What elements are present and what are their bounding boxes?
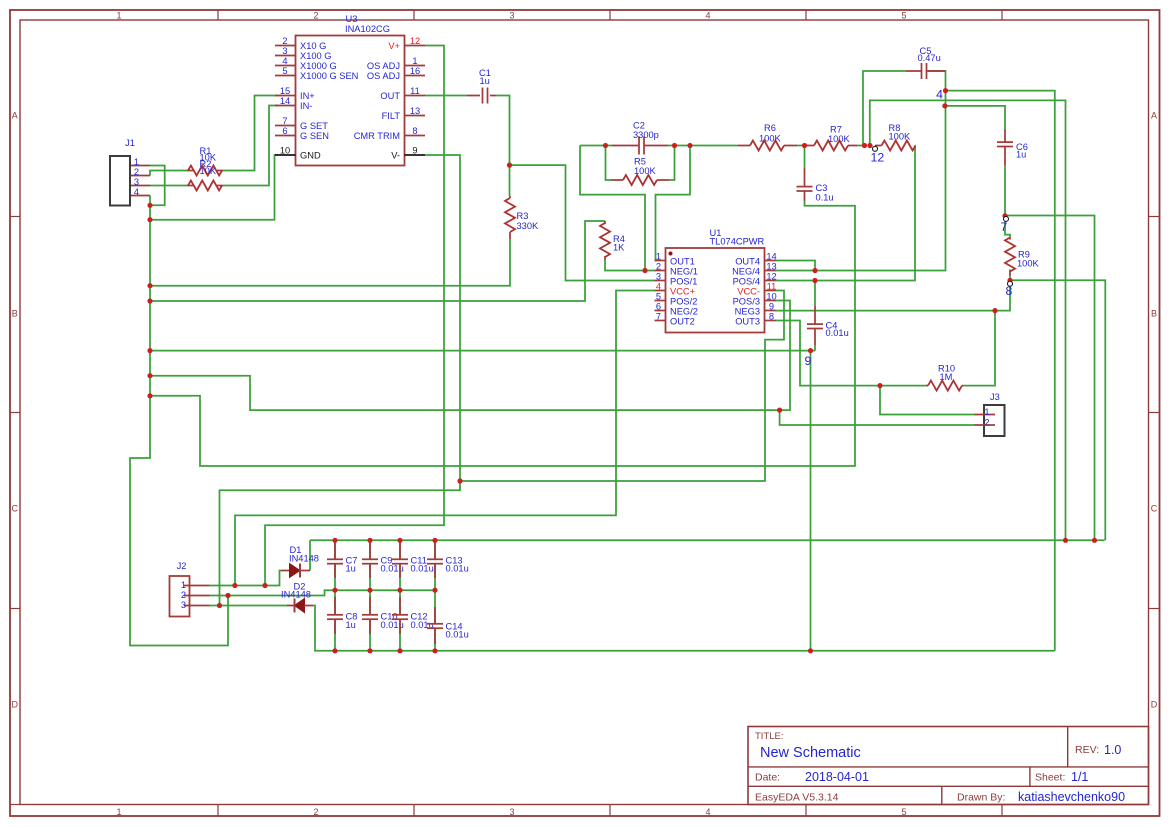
svg-text:VCC-: VCC- [737,287,760,297]
svg-text:VCC+: VCC+ [670,287,695,297]
svg-text:Drawn By:: Drawn By: [957,792,1005,804]
svg-text:3: 3 [509,807,514,817]
capacitor C11 0.01u [392,542,434,578]
svg-text:4: 4 [705,807,710,817]
svg-text:3300p: 3300p [633,130,659,140]
svg-text:5: 5 [282,66,287,76]
resistor R2 10K [187,159,223,190]
wire node to U1 POS/1 pin 3 [510,165,656,280]
wire U1 NEG/4 pin 13 row to C5 right [775,71,946,271]
svg-text:R3: R3 [517,211,529,221]
wire VCC+ net from U1 pin 4 to J2 pin 1 [235,291,655,586]
svg-text:OUT3: OUT3 [735,317,760,327]
wire D2 anode to bottom rail [313,606,1055,651]
svg-text:V+: V+ [388,41,400,51]
wire ground spur to U1 POS/3 pin 10 [150,301,790,411]
svg-text:C: C [1151,503,1158,513]
wire net 12 R7 R8 node up and over [870,100,1066,540]
svg-text:1u: 1u [480,76,490,86]
svg-text:13: 13 [766,262,776,272]
svg-text:16: 16 [410,66,420,76]
op-amp IC U1 TL074CPWR [655,228,777,333]
wire C3 top [804,146,806,169]
svg-text:IN+: IN+ [300,91,315,101]
svg-text:IN-: IN- [300,101,312,111]
wire J1 pin3 to R2 left [150,185,187,187]
wire net 7 C6 bottom to rail riser [1005,165,1095,540]
svg-text:NEG/4: NEG/4 [732,267,760,277]
wire R1 right to U3 IN+ pin 15 [223,96,278,171]
svg-text:4: 4 [134,187,139,197]
svg-text:0.01u: 0.01u [411,564,434,574]
svg-text:100K: 100K [889,132,912,142]
wire branch to J3 pin 2 [780,410,975,425]
wire ground spur to R4 top [150,221,605,301]
svg-text:OS ADJ: OS ADJ [367,61,400,71]
svg-text:IN4148: IN4148 [289,554,319,564]
capacitor C6 1u [997,129,1028,165]
svg-text:5: 5 [901,10,906,20]
net label 7 [1001,216,1009,234]
svg-text:2018-04-01: 2018-04-01 [805,770,869,784]
capacitor C14 0.01u [427,607,469,644]
svg-text:3: 3 [181,600,186,610]
svg-text:5: 5 [656,292,661,302]
svg-text:3: 3 [509,10,514,20]
capacitor C3 0.1u [797,168,834,203]
wire net 9 ground to C4 bottom [150,350,815,352]
wire J1 pin4 to ground node [149,196,151,206]
svg-text:NEG/1: NEG/1 [670,267,698,277]
resistor R9 100K [1005,238,1040,276]
svg-text:A: A [12,110,18,120]
wire D1 cathode riser [309,540,311,570]
svg-text:X100 G: X100 G [300,51,332,61]
wire net 8 R9 bottom to top rail right end [1010,280,1105,540]
svg-text:G SET: G SET [300,121,328,131]
svg-text:0.01u: 0.01u [826,328,849,338]
svg-text:100K: 100K [828,134,851,144]
svg-text:OS ADJ: OS ADJ [367,71,400,81]
svg-text:4: 4 [936,88,943,102]
svg-text:Date:: Date: [755,772,780,784]
svg-text:12: 12 [871,151,885,165]
svg-text:POS/4: POS/4 [733,277,760,287]
svg-text:B: B [1151,308,1157,318]
svg-text:7: 7 [656,312,661,322]
svg-text:POS/2: POS/2 [670,297,697,307]
svg-text:1K: 1K [613,243,625,253]
wire net 7 to R9 top [1005,221,1010,238]
svg-text:9: 9 [412,146,417,156]
capacitor C10 0.01u [362,597,404,634]
svg-text:12: 12 [410,36,420,46]
svg-text:NEG3: NEG3 [735,307,760,317]
connector J3 [975,392,1005,436]
svg-text:1u: 1u [1016,150,1026,160]
svg-text:12: 12 [766,272,776,282]
svg-text:J3: J3 [990,392,1000,402]
svg-text:5: 5 [901,807,906,817]
capacitor C1 1u [467,68,496,103]
op-amp IC U3 INA102CG [275,14,425,166]
svg-text:3: 3 [134,177,139,187]
svg-text:13: 13 [410,106,420,116]
capacitor C7 1u [327,542,357,578]
svg-text:C: C [12,503,19,513]
svg-text:J1: J1 [125,138,135,148]
svg-text:katiashevchenko90: katiashevchenko90 [1018,790,1125,804]
wire net 8 down to R10 right [963,311,995,386]
svg-text:REV:: REV: [1075,744,1099,756]
svg-text:6: 6 [656,302,661,312]
wire OUT1 riser [655,146,690,261]
resistor R1 10K [187,146,223,176]
svg-text:INA102CG: INA102CG [345,24,390,34]
svg-text:7: 7 [1001,220,1008,234]
wire capacitor bank columns [335,540,435,651]
svg-text:1M: 1M [940,372,953,382]
svg-text:J2: J2 [177,561,187,571]
svg-text:CMR TRIM: CMR TRIM [354,131,400,141]
wire U1 OUT4 pin 14 to NEG/4 [775,261,815,271]
capacitor C4 0.01u [807,306,849,345]
svg-text:1u: 1u [346,564,356,574]
svg-text:330K: 330K [517,221,540,231]
wire R5 loop right [669,146,675,181]
capacitor C9 0.01u [362,542,404,578]
capacitor C13 0.01u [427,542,469,578]
svg-text:2: 2 [656,262,661,272]
svg-text:15: 15 [280,86,290,96]
svg-text:R5: R5 [634,157,646,167]
wire R4 bottom to U1 NEG/1 pin 2 [605,259,655,271]
resistor R3 330K [505,196,539,239]
wire R8 right down to U1 POS/4 pin 12 row [775,146,915,281]
svg-text:1: 1 [984,407,989,417]
svg-text:1/1: 1/1 [1071,770,1088,784]
svg-text:1: 1 [412,56,417,66]
wire main row C2 R6 R7 segments [580,145,865,147]
svg-text:OUT1: OUT1 [670,257,695,267]
capacitor C2 3300p [612,121,668,155]
net label 9 [805,354,812,368]
wire C1 right to node [496,96,510,166]
svg-text:B: B [12,308,18,318]
resistor R6 100K [738,123,797,151]
svg-text:0.47u: 0.47u [918,53,941,63]
svg-text:1: 1 [134,157,139,167]
svg-text:OUT: OUT [380,91,400,101]
wire V- branch to U1 VCC- pin 11 [460,291,784,482]
svg-text:POS/1: POS/1 [670,277,697,287]
svg-text:D: D [12,699,19,709]
svg-text:2: 2 [313,807,318,817]
wire J2 pin2 row to middle rail [210,590,436,595]
svg-text:8: 8 [769,312,774,322]
svg-text:TL074CPWR: TL074CPWR [710,237,765,247]
svg-text:2: 2 [282,36,287,46]
svg-text:GND: GND [300,150,321,160]
resistor R10 1M [926,364,963,391]
svg-text:A: A [1151,110,1157,120]
wire J2 pin1 row to D1 anode [210,571,282,586]
diode D2 IN4148 [281,582,313,613]
svg-text:FILT: FILT [382,111,401,121]
wire node to R3 top [509,165,511,196]
svg-text:TITLE:: TITLE: [755,731,784,742]
wire J1 pin2 to R1 left [150,171,187,176]
wire U3 OUT pin 11 to C1 left [425,95,467,97]
svg-text:10: 10 [280,146,290,156]
svg-text:8: 8 [412,126,417,136]
resistor R4 1K [600,221,625,260]
wire V- net from U3 pin 9 to J2 pin 3 [220,155,461,606]
connector J2 [170,561,210,617]
svg-text:X1000 G SEN: X1000 G SEN [300,71,358,81]
svg-text:2: 2 [181,590,186,600]
wire capacitor top rail [310,539,1105,541]
wire R7 node to C5 left [863,71,906,146]
svg-text:0.01u: 0.01u [446,630,469,640]
wire U1 OUT3 pin 8 to R10 left [775,321,926,386]
wire R2 right to U3 IN- pin 14 [223,106,278,186]
svg-text:OUT2: OUT2 [670,317,695,327]
svg-text:1u: 1u [346,620,356,630]
wire V+ net from U3 pin 12 to J2 pin 1 [265,46,444,586]
svg-text:U3: U3 [346,14,358,24]
svg-text:14: 14 [280,96,290,106]
resistor R5 100K [611,157,669,186]
connector J1 [110,138,150,206]
wire C4 column [814,281,816,351]
svg-text:10K: 10K [200,166,217,176]
wire ground spur to C3 bottom [150,201,855,466]
svg-text:100K: 100K [759,133,782,143]
wire net 9 vertical to bottom rail [810,351,812,651]
svg-text:2: 2 [313,10,318,20]
svg-text:R7: R7 [830,124,842,134]
wire ground spur to U3 GND pin 10 [150,155,278,220]
diode D1 IN4148 [281,545,319,578]
svg-text:10: 10 [766,292,776,302]
svg-text:X1000 G: X1000 G [300,61,337,71]
net label 4 [936,88,943,102]
svg-text:6: 6 [282,126,287,136]
svg-text:1: 1 [116,10,121,20]
svg-text:7: 7 [282,116,287,126]
wire net 4 C5 right to bottom rail [946,91,1055,651]
svg-text:1: 1 [656,252,661,262]
svg-text:NEG/2: NEG/2 [670,307,698,317]
svg-text:POS/3: POS/3 [733,297,760,307]
net label 8 [1006,281,1013,298]
svg-text:Sheet:: Sheet: [1035,772,1065,784]
svg-text:G SEN: G SEN [300,131,329,141]
svg-text:3: 3 [656,272,661,282]
svg-text:100K: 100K [1017,259,1040,269]
svg-text:V-: V- [391,150,400,160]
wire C6 top branch [945,106,1005,129]
capacitor C12 0.01u [392,597,434,634]
svg-text:4: 4 [705,10,710,20]
wire J1 pin1 to ground node [150,166,165,206]
svg-text:EasyEDA V5.3.14: EasyEDA V5.3.14 [755,792,839,804]
svg-text:New Schematic: New Schematic [760,745,861,761]
svg-text:9: 9 [805,354,812,368]
svg-text:11: 11 [410,86,420,96]
wire J2 pin3 row to D2 cathode [210,605,288,607]
svg-text:3: 3 [282,46,287,56]
svg-text:X10 G: X10 G [300,41,326,51]
wire ground bus vertical [130,205,228,645]
svg-text:2: 2 [134,167,139,177]
resistor R7 100K [806,124,857,150]
svg-text:IN4148: IN4148 [281,590,311,600]
capacitor C8 1u [327,597,357,634]
svg-text:R6: R6 [764,123,776,133]
capacitor C5 0.47u [906,46,946,79]
svg-text:0.1u: 0.1u [816,193,834,203]
title block [748,727,1149,805]
svg-text:2: 2 [984,417,989,427]
svg-text:100K: 100K [634,166,657,176]
svg-text:C2: C2 [633,121,645,131]
svg-text:8: 8 [1006,284,1013,298]
svg-text:C3: C3 [816,183,828,193]
wire ground spur to R3 bottom [150,239,510,286]
wire U1 NEG3 pin 9 row net 8 [775,276,1010,311]
net label 12 [871,146,885,164]
svg-text:9: 9 [769,302,774,312]
wire R5 loop left [606,146,612,181]
svg-text:1: 1 [116,807,121,817]
resistor R8 100K [875,123,916,151]
svg-text:11: 11 [767,282,777,292]
svg-text:4: 4 [656,282,661,292]
svg-text:D: D [1151,699,1158,709]
wire row left corner down to NEG/1 [580,146,645,271]
svg-text:4: 4 [282,56,287,66]
svg-text:OUT4: OUT4 [735,257,760,267]
svg-text:0.01u: 0.01u [446,564,469,574]
svg-text:14: 14 [766,252,776,262]
wire branch to J3 pin 1 [880,386,975,415]
svg-text:1: 1 [181,580,186,590]
svg-text:1.0: 1.0 [1104,743,1121,757]
